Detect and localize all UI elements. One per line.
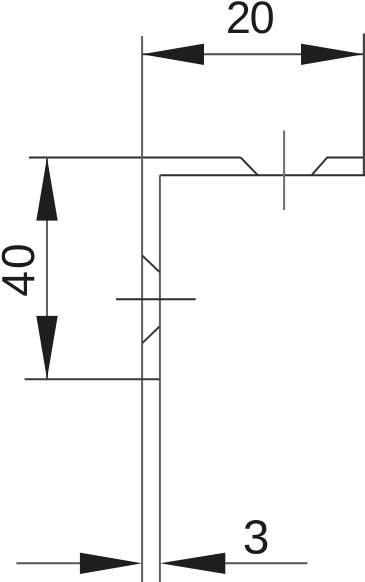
dimension line 20 <box>142 53 364 55</box>
countersunk hole chamfer lower (vertical leg) <box>142 327 159 344</box>
arrowhead right of dim 3 (pointing left) <box>160 553 225 574</box>
profile top edge + left extension line (interrupted by countersink) <box>29 157 365 159</box>
profile right edge + extension line up to 20-dim <box>363 34 365 176</box>
svg-text:20: 20 <box>226 0 274 43</box>
extension line bottom of dim 40 <box>25 378 160 380</box>
hole centerline (vertical leg) <box>116 298 196 300</box>
arrowhead right of dim 20 <box>301 44 364 65</box>
countersunk hole chamfer left (horizontal leg) <box>241 158 258 175</box>
profile bottom edge of horizontal leg <box>160 174 365 176</box>
profile left edge + extension line up to 20-dim <box>141 36 143 582</box>
arrowhead up of dim 40 <box>36 158 57 221</box>
countersunk hole chamfer right (horizontal leg) <box>312 158 327 175</box>
arrowhead left of dim 3 (pointing right) <box>80 553 142 574</box>
dimension line 3 left tail <box>16 562 80 564</box>
profile inner vertical edge <box>159 175 161 582</box>
arrowhead down of dim 40 <box>36 316 57 379</box>
dimension line 40 <box>46 158 48 380</box>
countersunk hole chamfer upper (vertical leg) <box>142 256 159 273</box>
arrowhead left of dim 20 <box>142 44 204 65</box>
hole centerline (horizontal leg) <box>283 131 285 211</box>
dimension line 3 right tail <box>225 562 307 564</box>
svg-text:3: 3 <box>243 511 270 564</box>
svg-text:40: 40 <box>0 241 44 296</box>
